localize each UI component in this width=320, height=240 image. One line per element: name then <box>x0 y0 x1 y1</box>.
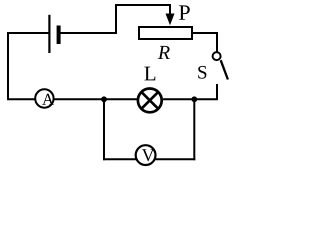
label S <box>198 66 206 79</box>
switch S pivot circle <box>213 52 221 60</box>
rheostat R body <box>139 27 192 39</box>
node dot right (lamp/voltmeter junction) <box>191 96 197 102</box>
wire voltmeter bottom left <box>103 158 136 160</box>
wire voltmeter branch left drop <box>103 99 105 160</box>
wire rheostat to switch <box>192 32 218 34</box>
node dot left (lamp/voltmeter junction) <box>101 96 107 102</box>
wire middle right corner <box>163 98 218 100</box>
ammeter A circle <box>35 89 53 107</box>
slider arrow stem P <box>169 4 171 16</box>
wire top horizontal to slider arrow <box>115 4 170 6</box>
lamp L circle <box>138 89 162 113</box>
switch S blade <box>221 60 228 79</box>
battery short thick plate (-) <box>57 26 61 45</box>
voltmeter V circle <box>136 145 156 165</box>
wire riser up <box>115 4 117 34</box>
wire battery to right riser <box>60 32 117 34</box>
slider arrowhead <box>166 14 175 26</box>
wire voltmeter bottom right <box>155 158 195 160</box>
label R <box>158 46 170 59</box>
wire switch drop <box>216 32 218 52</box>
lamp X cross <box>142 92 158 108</box>
wire switch bottom terminal <box>216 84 218 100</box>
wire voltmeter branch right riser <box>193 99 195 160</box>
wire middle left <box>7 98 36 100</box>
ammeter A letter <box>42 94 54 105</box>
voltmeter V letter <box>142 149 155 161</box>
label L <box>144 67 155 81</box>
wire left vertical (battery loop left side) <box>7 32 9 100</box>
battery long plate (+) <box>48 15 50 53</box>
label P <box>179 5 190 19</box>
wire top-left horizontal to battery <box>7 32 49 34</box>
wire middle: ammeter to lamp <box>54 98 138 100</box>
